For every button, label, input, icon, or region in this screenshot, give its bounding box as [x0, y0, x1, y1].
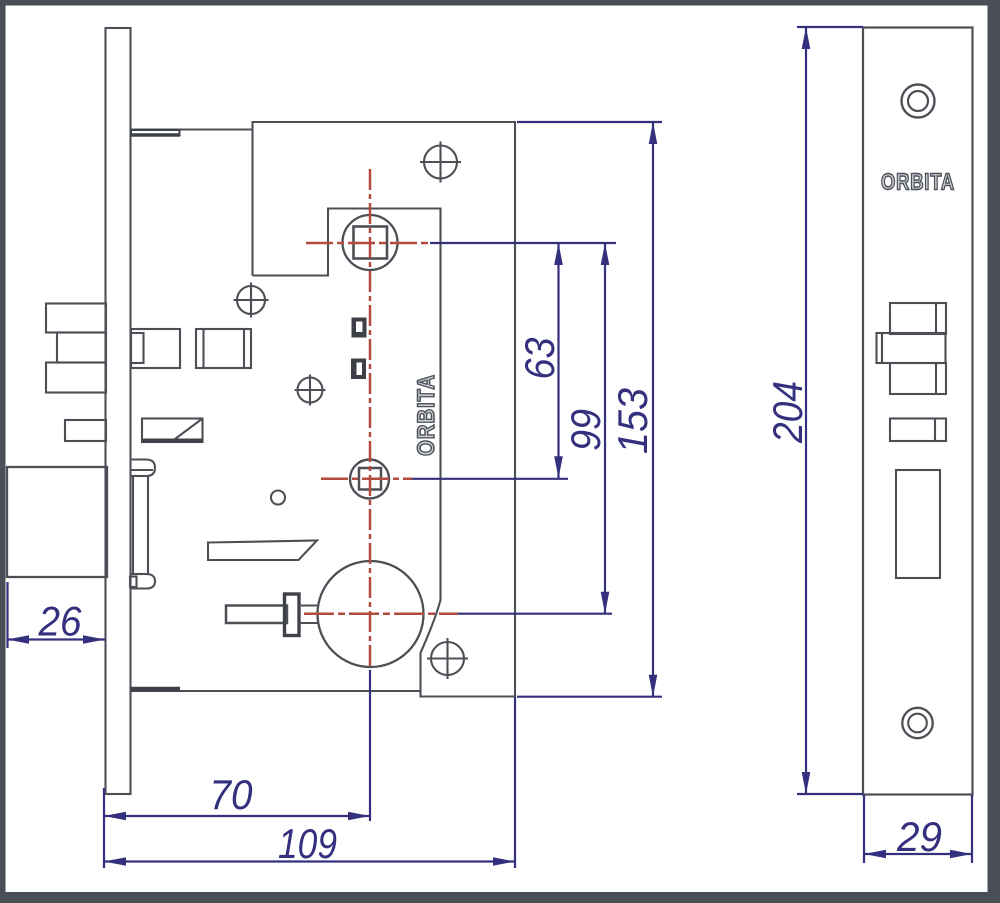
svg-text:29: 29 — [896, 813, 942, 860]
svg-text:63: 63 — [516, 338, 563, 380]
svg-text:70: 70 — [210, 771, 254, 818]
svg-text:204: 204 — [764, 381, 811, 444]
svg-text:109: 109 — [278, 820, 337, 867]
svg-text:99: 99 — [562, 409, 609, 451]
svg-text:153: 153 — [609, 388, 656, 454]
svg-text:26: 26 — [38, 598, 83, 645]
svg-text:ORBITA: ORBITA — [881, 169, 955, 195]
svg-text:ORBITA: ORBITA — [413, 374, 440, 456]
